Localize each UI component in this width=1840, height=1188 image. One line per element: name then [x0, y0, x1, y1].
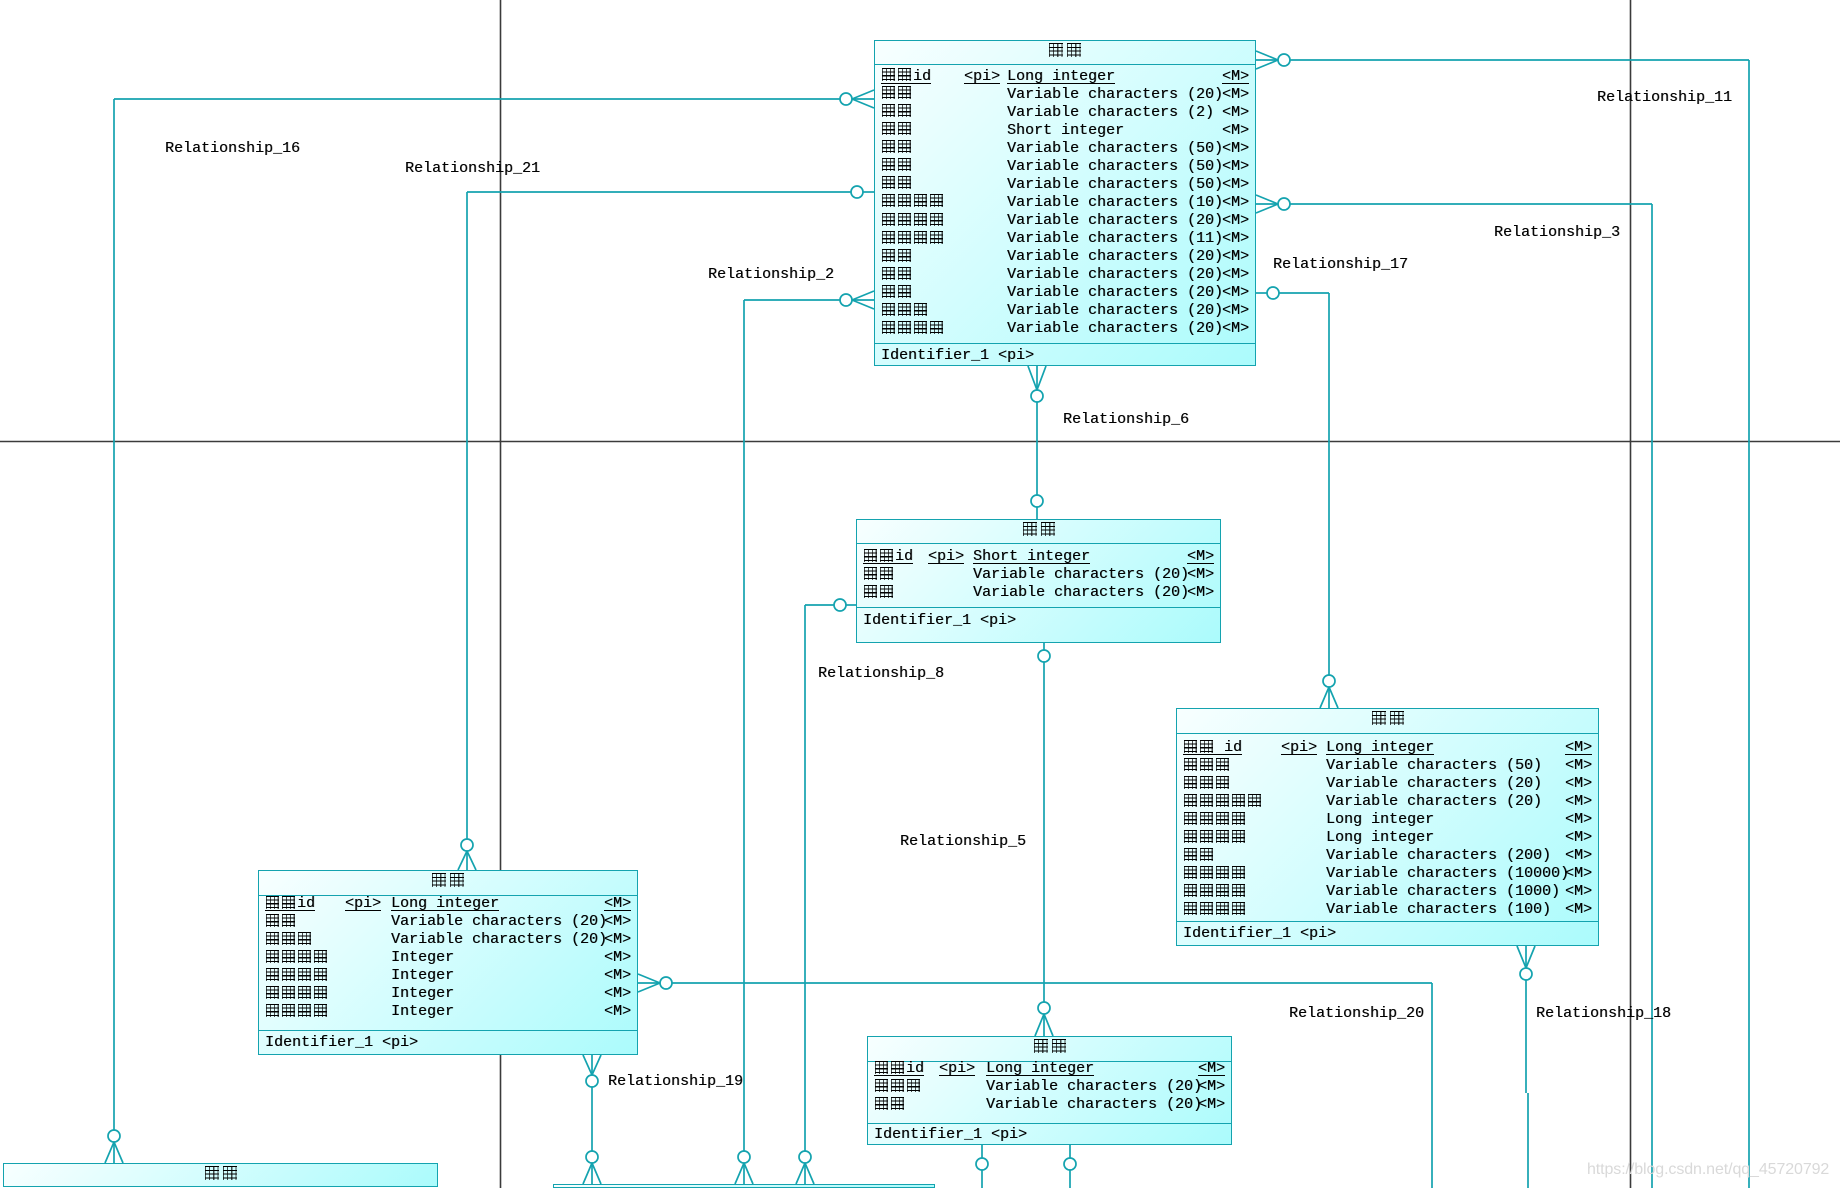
watermark csdn	[1587, 1161, 1829, 1179]
Relationship_16 crow foot at 课程	[105, 1142, 114, 1163]
Relationship_16 circle at 老师 end	[840, 93, 852, 105]
attribute row 公告内容	[1177, 865, 1598, 883]
Relationship_18 circle at 公告 end	[1520, 968, 1532, 980]
Relationship_6 circle at 老师 end	[1031, 390, 1043, 402]
Relationship_2 crow foot at bottom table	[735, 1163, 744, 1184]
Relationship_8 circle at 学院 end	[834, 599, 846, 611]
label Relationship_3	[1494, 225, 1620, 240]
relationship Relationship_2 wire	[744, 299, 840, 301]
wire from 专业 bottom right stub	[1069, 1145, 1071, 1158]
attribute row 身份证号	[875, 212, 1255, 230]
attribute row 公告 id	[1177, 739, 1598, 757]
Relationship_8 circle at bottom end	[799, 1151, 811, 1163]
identifier row Identifier_1 <pi>	[1177, 925, 1598, 943]
attribute row 课程名	[875, 302, 1255, 320]
Relationship_2 crow foot at 老师	[852, 291, 874, 300]
Relationship_5 crow foot at 专业	[1035, 1014, 1044, 1036]
attribute row 学院	[868, 1096, 1231, 1114]
attribute row 最终成绩	[259, 1003, 637, 1021]
attribute row 班级	[875, 248, 1255, 266]
Relationship_3 crow foot at 老师	[1256, 195, 1278, 204]
entity 学院 title	[857, 520, 1220, 544]
Relationship_20 crow foot at 成绩	[638, 974, 660, 983]
attribute row 图片地址	[1177, 883, 1598, 901]
attribute row 专业id	[868, 1060, 1231, 1078]
Relationship_19 circle at 成绩 end	[586, 1075, 598, 1087]
page boundary vertical line x=500	[500, 0, 502, 1188]
identifier row Identifier_1 <pi>	[868, 1126, 1231, 1144]
Relationship_19 crow foot at bottom table	[583, 1163, 592, 1184]
relationship Relationship_6 wire	[1036, 402, 1038, 495]
entity 公告 title	[1177, 709, 1598, 734]
label Relationship_18	[1536, 1006, 1671, 1021]
Relationship_11 crow foot at 老师	[1256, 51, 1278, 60]
Relationship_17 circle at 公告 end	[1323, 675, 1335, 687]
label Relationship_6	[1063, 412, 1189, 427]
circle on 专业 left stub	[976, 1158, 988, 1170]
Relationship_16 crow foot at 老师	[852, 90, 874, 99]
identifier separator	[868, 1123, 1231, 1124]
page boundary horizontal line y=441	[0, 441, 1840, 443]
attribute row 院长	[857, 584, 1220, 602]
attribute row 学院	[875, 284, 1255, 302]
Relationship_11 circle at 老师 end	[1278, 54, 1290, 66]
attribute row 平时成绩	[259, 967, 637, 985]
attribute row 职称	[875, 140, 1255, 158]
relationship Relationship_5 wire	[1043, 643, 1045, 650]
relationship Relationship_11 wire	[1290, 59, 1749, 61]
identifier row Identifier_1 <pi>	[857, 612, 1220, 630]
Relationship_16 circle at 课程 end	[108, 1130, 120, 1142]
entity 成绩 box	[258, 870, 638, 1055]
identifier separator	[857, 607, 1220, 608]
circle on 专业 right stub	[1064, 1158, 1076, 1170]
entity 课程 title	[4, 1164, 437, 1188]
Relationship_18 crow foot at 公告	[1517, 946, 1526, 968]
attribute row 学院id	[857, 548, 1220, 566]
attribute row 成绩id	[259, 895, 637, 913]
identifier row Identifier_1 <pi>	[259, 1034, 637, 1052]
attribute row 籍贯	[875, 158, 1255, 176]
attribute row 点赞次数	[1177, 829, 1598, 847]
attribute row 登陆密码	[875, 320, 1255, 338]
Relationship_20 circle at 成绩 end	[660, 977, 672, 989]
identifier separator	[875, 343, 1255, 344]
page boundary vertical line x=1630	[1630, 0, 1632, 1188]
entity 老师 title	[875, 41, 1255, 65]
Relationship_6 crow foot at 老师	[1028, 366, 1037, 390]
Relationship_19 crow foot at 成绩	[583, 1055, 592, 1075]
identifier separator	[1177, 921, 1598, 922]
entity 专业 title	[868, 1037, 1231, 1062]
attribute row 老师id	[875, 68, 1255, 86]
entity 老师 box	[874, 40, 1256, 366]
attribute row 课程名	[259, 931, 637, 949]
attribute row 学号	[259, 913, 637, 931]
attribute row 专业名	[868, 1078, 1231, 1096]
label Relationship_19	[608, 1074, 743, 1089]
entity 学院 box	[856, 519, 1221, 643]
label Relationship_11	[1597, 90, 1732, 105]
entity 学生 box (partial, clipped at bottom)	[553, 1184, 935, 1188]
label Relationship_20	[1289, 1006, 1424, 1021]
Relationship_5 circle at 专业 end	[1038, 1002, 1050, 1014]
label Relationship_5	[900, 834, 1026, 849]
attribute row 性别	[875, 104, 1255, 122]
attribute row 姓名	[875, 86, 1255, 104]
Relationship_6 circle at 学院 end	[1031, 495, 1043, 507]
attribute row 学院	[857, 566, 1220, 584]
label Relationship_8	[818, 666, 944, 681]
relationship Relationship_16 wire	[114, 98, 840, 100]
attribute row 发布人职务	[1177, 793, 1598, 811]
wire from 专业 bottom left stub	[981, 1145, 983, 1158]
Relationship_3 circle at 老师 end	[1278, 198, 1290, 210]
attribute row 浏览次数	[1177, 811, 1598, 829]
entity 公告 box	[1176, 708, 1599, 946]
attribute row 学历	[875, 176, 1255, 194]
attribute row 发布时间	[1177, 901, 1598, 919]
relationship Relationship_18 wire	[1525, 980, 1527, 1093]
relationship Relationship_21 wire	[467, 191, 851, 193]
entity 课程 box (partial)	[3, 1163, 438, 1187]
relationship Relationship_3 wire	[1290, 203, 1652, 205]
attribute row 公告名	[1177, 757, 1598, 775]
identifier separator	[259, 1030, 637, 1031]
identifier row Identifier_1 <pi>	[875, 347, 1255, 365]
Relationship_19 circle at bottom end	[586, 1151, 598, 1163]
entity 成绩 title	[259, 871, 637, 896]
attribute row 专业	[875, 266, 1255, 284]
attribute row 联系方式	[875, 230, 1255, 248]
relationship Relationship_19 wire	[591, 1087, 593, 1151]
attribute row 期末成绩	[259, 985, 637, 1003]
relationship Relationship_17 wire	[1256, 292, 1267, 294]
label Relationship_2	[708, 267, 834, 282]
relationship Relationship_20 wire	[672, 982, 1432, 984]
Relationship_2 circle at 老师 end	[840, 294, 852, 306]
label Relationship_16	[165, 141, 300, 156]
Relationship_21 circle at 老师 end	[851, 186, 863, 198]
attribute row 政治面貌	[875, 194, 1255, 212]
Relationship_21 crow foot at 成绩	[458, 851, 467, 870]
label Relationship_21	[405, 161, 540, 176]
attribute row 期中成绩	[259, 949, 637, 967]
Relationship_17 circle at 老师 end	[1267, 287, 1279, 299]
Relationship_17 crow foot at 公告	[1320, 687, 1329, 708]
relationship Relationship_8 wire	[846, 604, 856, 606]
attribute row 发布人	[1177, 775, 1598, 793]
attribute row 评论	[1177, 847, 1598, 865]
Relationship_21 circle at 成绩 end	[461, 839, 473, 851]
Relationship_2 circle at bottom end	[738, 1151, 750, 1163]
entity 专业 box	[867, 1036, 1232, 1145]
Relationship_5 circle at 学院 end	[1038, 650, 1050, 662]
Relationship_8 crow foot at bottom table	[796, 1163, 805, 1184]
attribute row 年龄	[875, 122, 1255, 140]
label Relationship_17	[1273, 257, 1408, 272]
